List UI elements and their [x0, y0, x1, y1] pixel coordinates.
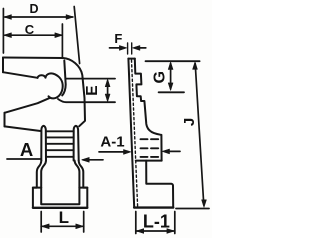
front view: lower prong bottom edge: [5, 126, 41, 131]
svg-text:L: L: [59, 208, 69, 227]
dimension A-1 left arrow: [99, 150, 131, 155]
dimension E top reference line: [66, 78, 115, 80]
dimension F ticks: [127, 43, 129, 54]
side view: dotted center line: [132, 60, 138, 206]
front view: lower prong top edge: [5, 98, 51, 113]
label A: [20, 139, 33, 160]
front view: left edge of strap: [2, 58, 4, 73]
front view: top strap outer edge with corner arc: [3, 58, 83, 79]
dimension E label (rotated): [84, 85, 101, 95]
front view: small bump: [38, 75, 46, 78]
wire barrel serration rungs: [46, 131, 74, 157]
dimension J bottom reference line: [176, 208, 209, 210]
dimension L line with outward arrows: [41, 224, 83, 229]
svg-text:A: A: [20, 139, 33, 160]
front view: curled knob: [46, 73, 63, 98]
dimension D label: [29, 2, 38, 16]
step line right: [79, 187, 87, 189]
dimension L extension lines: [40, 212, 42, 233]
section line A (right part with arrow): [82, 157, 103, 162]
side view: hidden wire dashes row 2: [141, 147, 159, 149]
svg-text:G: G: [151, 71, 168, 83]
svg-text:A-1: A-1: [100, 134, 124, 151]
section line A (left part): [7, 158, 41, 160]
front view: curled tip end face: [62, 61, 65, 96]
side view: top tip edge: [128, 58, 134, 60]
side view: left edge: [128, 59, 134, 208]
extension line left (D/C): [2, 9, 4, 54]
G/J top reference line: [146, 60, 200, 62]
bottom edge of base: [33, 207, 87, 209]
dimension C line with arrows: [4, 33, 63, 38]
extension line D right (slanted): [74, 7, 79, 64]
svg-text:E: E: [84, 85, 101, 95]
front view: strap inner edge: [3, 72, 38, 78]
side view: bottom edge: [134, 206, 173, 208]
side view: hidden wire dashes row 1: [141, 138, 159, 140]
front view: right edge: [79, 78, 85, 126]
label L: [59, 208, 69, 227]
dimension J label (rotated): [181, 118, 198, 126]
label L-1: [143, 211, 170, 231]
dimension L-1 line with outward arrows: [136, 229, 175, 234]
dimension F label: [114, 31, 122, 46]
insulation grip inner outline: [41, 161, 79, 205]
side view: lower column and foot: [146, 161, 173, 208]
side view: wire barrel bottom line: [136, 160, 162, 162]
svg-text:L-1: L-1: [143, 211, 170, 231]
insulation grip outer outline: [33, 161, 41, 207]
svg-text:J: J: [181, 118, 198, 126]
dimension G label (rotated): [151, 71, 168, 83]
dimension E bottom reference line: [58, 99, 115, 102]
wire barrel right leg: [74, 126, 79, 161]
dimension G arrows: [168, 62, 173, 90]
dimension D line with arrows: [4, 15, 74, 20]
dimension A-1 right arrow: [162, 149, 180, 154]
svg-text:F: F: [114, 31, 122, 46]
side view: right edge with steps and barrel: [135, 59, 162, 161]
side view: hidden wire dashes row 3: [141, 156, 159, 158]
front view: lower prong left edge: [4, 113, 6, 127]
label A-1: [100, 134, 124, 151]
dimension C label: [25, 22, 35, 37]
dimension E arrows: [105, 79, 110, 101]
svg-text:D: D: [29, 2, 38, 16]
dimension F arrows: [110, 46, 146, 51]
wire barrel left leg: [41, 126, 46, 161]
dimension J line (slanted): [193, 62, 207, 208]
extension line C right: [61, 24, 63, 58]
step line left: [33, 187, 41, 189]
dimension L-1 extension lines: [135, 212, 137, 234]
dimension G bottom reference line: [159, 91, 184, 93]
